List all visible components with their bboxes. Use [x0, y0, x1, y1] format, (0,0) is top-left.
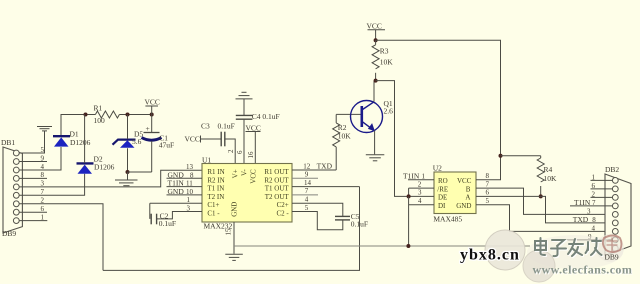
svg-text:12: 12 — [303, 162, 311, 170]
wire ground bus (U1 pin15 to U2 control net) — [234, 245, 530, 247]
net label T1IN (U2 pin1 RO) — [403, 171, 434, 180]
svg-text:VCC: VCC — [250, 169, 258, 184]
capacitor C5 0.1uF — [335, 212, 368, 228]
wire U2 pin5 GND to DB2 pin4 — [476, 205, 605, 232]
svg-text:11: 11 — [186, 180, 193, 188]
svg-text:14: 14 — [304, 179, 312, 187]
op-amp U2 MAX485 body — [433, 164, 476, 224]
svg-text:DB9: DB9 — [605, 253, 619, 262]
svg-text:3: 3 — [187, 205, 191, 213]
svg-text:2.6: 2.6 — [384, 107, 394, 116]
watermark CJK char 1 (电) — [535, 238, 547, 256]
svg-text:VCC: VCC — [457, 177, 472, 185]
junction dot VCC-C1 — [150, 113, 154, 117]
svg-text:10K: 10K — [544, 174, 558, 183]
wire VCC top rail to right — [376, 40, 501, 156]
svg-text:100: 100 — [94, 116, 106, 125]
wire D5 top to R1 junction — [127, 115, 129, 140]
svg-text:7: 7 — [592, 199, 596, 207]
wire U2 pin4 DI — [409, 204, 434, 206]
svg-text:TXD: TXD — [317, 161, 333, 170]
svg-text:R1 IN: R1 IN — [207, 168, 224, 176]
svg-text:8: 8 — [486, 172, 490, 180]
svg-text:ybx8.cn: ybx8.cn — [460, 247, 520, 264]
svg-text:C2+: C2+ — [277, 201, 289, 209]
junction dot R4-A line — [539, 194, 543, 198]
wire C3 to U1 pin2 V+ — [226, 139, 236, 164]
wire C2 to U1 pin3 C1- — [157, 212, 202, 219]
zener diode D5 5.6V — [113, 129, 144, 148]
capacitor C4 0.1uF — [236, 112, 280, 121]
svg-text:DI: DI — [438, 202, 446, 210]
svg-text:C1 -: C1 - — [207, 210, 220, 218]
wire U1 pin7 stub — [292, 194, 318, 196]
svg-text:T2 IN: T2 IN — [207, 193, 224, 201]
svg-text:5.6: 5.6 — [132, 137, 142, 146]
watermark red seal glyph — [603, 236, 622, 253]
svg-text:4: 4 — [592, 224, 596, 232]
svg-text:T1 IN: T1 IN — [207, 185, 224, 193]
svg-text:T2 OUT: T2 OUT — [265, 193, 290, 201]
wire VCC to U1 pin16 — [254, 132, 256, 164]
svg-text:GND: GND — [168, 187, 185, 196]
svg-text:6: 6 — [592, 182, 596, 190]
watermark text www.elecfans.com — [533, 263, 634, 278]
svg-text:0.1uF: 0.1uF — [218, 122, 235, 131]
resistor R3 10K — [372, 40, 393, 80]
wire C4 to U1 pin6 V- — [243, 120, 245, 164]
svg-text:R1: R1 — [94, 104, 103, 113]
ground G4 (U1 pin15) — [225, 254, 243, 260]
wire ground to C4 — [243, 99, 245, 115]
junction dot on ground bus — [406, 244, 410, 248]
svg-text:RO: RO — [438, 177, 448, 185]
capacitor C2 0.1uF — [151, 212, 176, 228]
diode D2 — [77, 155, 115, 174]
transistor Q1 — [351, 99, 394, 133]
svg-text:4: 4 — [418, 197, 422, 205]
wire DB1 pin2 to bottom bus — [20, 204, 104, 271]
svg-text:0.1uF: 0.1uF — [159, 219, 176, 228]
svg-text:DB2: DB2 — [605, 165, 619, 174]
resistor R1 — [94, 104, 120, 126]
power VCC label (U1 pin16) — [246, 123, 261, 132]
diode D1 — [53, 130, 91, 147]
wire Q1 emitter down to ground — [374, 131, 376, 155]
svg-text:10: 10 — [186, 188, 194, 196]
svg-text:GND: GND — [230, 202, 238, 217]
wire DB1 pin9 stub — [20, 161, 48, 163]
svg-text:C2 -: C2 - — [276, 210, 289, 218]
svg-text:1: 1 — [422, 172, 426, 180]
wire U1 pin1 C1+ to C2 — [150, 203, 202, 219]
net label T1IN (U1 pin11) — [167, 179, 203, 188]
wire VCC node to R4 — [501, 155, 541, 157]
net label GND (U1 pin8) — [167, 170, 203, 179]
ground G2 (D5/C1) — [115, 180, 138, 186]
ground G1 (DB1 pin5) — [37, 127, 52, 131]
svg-text:DB1: DB1 — [1, 138, 15, 147]
wire DB2 pin2 stub — [591, 196, 613, 198]
resistor R2 10K — [333, 114, 352, 170]
svg-text:C3: C3 — [201, 122, 210, 131]
watermark CJK char 3 (发) — [568, 239, 584, 257]
svg-text:6: 6 — [486, 189, 490, 197]
svg-text:13: 13 — [186, 163, 194, 171]
svg-text:TXD: TXD — [573, 215, 589, 224]
svg-text:7: 7 — [486, 180, 490, 188]
svg-text:DE: DE — [438, 194, 447, 202]
junction dot RE-DE tie — [407, 194, 411, 198]
svg-text:VCC: VCC — [185, 134, 200, 143]
wire DB1 pin4 to D1 — [20, 147, 62, 170]
svg-text:1: 1 — [187, 196, 191, 204]
svg-text:V+: V+ — [232, 169, 240, 178]
watermark CJK char 2 (子) — [551, 240, 567, 257]
wire U1 pin9 stub — [292, 177, 318, 179]
junction dot D5-ground — [126, 170, 130, 174]
svg-text:/RE: /RE — [437, 185, 448, 193]
wire DB2 pin6 stub — [591, 188, 613, 190]
svg-text:8: 8 — [592, 216, 596, 224]
wire R1 right to VCC node — [119, 114, 151, 116]
svg-text:8: 8 — [190, 171, 194, 179]
wire Q1 collector up to R3 — [373, 81, 375, 102]
wire DB1 pin8 stub — [20, 177, 48, 179]
DB1 pin number labels — [41, 146, 45, 222]
svg-text:10K: 10K — [338, 132, 352, 141]
wire ground node to C1 bottom — [128, 171, 152, 173]
connector DB2 (DB9 male) — [605, 165, 631, 255]
svg-text:T1IN: T1IN — [574, 198, 591, 207]
net label GND (U1 pin10) — [167, 187, 203, 196]
watermark CJK char 4 (烧) — [586, 238, 603, 256]
wire U2 pin6 A to DB2 pin8 — [476, 196, 605, 223]
wire D2 cathode up to R1 junction — [84, 115, 86, 164]
connector DB1 (DB9 female) — [1, 138, 22, 238]
svg-text:0.1uF: 0.1uF — [351, 219, 368, 228]
wire U1 pin15 GND stem — [233, 222, 235, 254]
ground G3 (above C4) — [236, 92, 253, 99]
svg-text:T1 OUT: T1 OUT — [265, 185, 290, 193]
wire U1 pin4 C2+ to C5 — [292, 203, 343, 216]
wire U1 pin12 R1OUT (TXD net) — [292, 169, 336, 171]
wire DB2 pin9 stub — [567, 239, 612, 241]
svg-text:VCC: VCC — [246, 123, 261, 132]
wire C1 stem bottom — [151, 141, 153, 172]
svg-text:5: 5 — [305, 204, 309, 212]
svg-text:DB9: DB9 — [2, 229, 16, 238]
svg-text:R2 IN: R2 IN — [207, 176, 224, 184]
svg-text:+: + — [146, 124, 150, 133]
svg-text:D1206: D1206 — [94, 163, 115, 172]
svg-text:9: 9 — [305, 171, 309, 179]
svg-text:D1206: D1206 — [70, 138, 91, 147]
wire VCC to C3 — [201, 138, 221, 140]
svg-text:C4 0.1uF: C4 0.1uF — [252, 112, 280, 121]
op-amp U1 MAX232 body — [202, 156, 292, 231]
junction dot VCC-R3 — [374, 38, 378, 42]
wire R2 top to Q1 base — [336, 113, 362, 115]
wire top rail left (D1 to R1) — [61, 115, 95, 138]
wire DB1 pin1 stub — [20, 220, 48, 222]
svg-text:3: 3 — [418, 189, 422, 197]
svg-text:VCC: VCC — [367, 21, 382, 30]
svg-text:T1IN: T1IN — [403, 171, 420, 180]
svg-text:R1 OUT: R1 OUT — [264, 168, 289, 176]
capacitor C1 47uF polarized — [142, 124, 175, 150]
power VCC label top (R3) — [367, 21, 386, 40]
svg-text:VCC: VCC — [145, 97, 160, 106]
wire U1 pin5 C2- to C5 — [292, 212, 343, 230]
wire D5 anode down to ground node — [127, 148, 129, 172]
svg-text:1: 1 — [592, 173, 596, 181]
svg-text:2: 2 — [227, 149, 235, 153]
junction dot R3-Q1 — [374, 79, 378, 83]
wire DB2 pin7 with net label T1IN — [570, 198, 612, 207]
wire R3 bottom to U2 RE/DE — [376, 81, 409, 197]
wire DB1 pin5 to ground — [20, 131, 45, 153]
svg-text:C1+: C1+ — [207, 201, 219, 209]
svg-text:16: 16 — [247, 151, 255, 159]
svg-text:GND: GND — [456, 202, 471, 210]
svg-text:V-: V- — [240, 169, 248, 176]
svg-text:U2: U2 — [433, 164, 442, 173]
svg-text:www.elecfans.com: www.elecfans.com — [533, 263, 633, 277]
wire RE/DE/DI down to ground bus — [408, 196, 410, 246]
svg-text:R3: R3 — [380, 47, 389, 56]
svg-text:B: B — [466, 185, 471, 193]
wire U2 pin8 VCC — [476, 156, 501, 180]
wire DB1 pin3 to U1 pin13 — [20, 170, 203, 187]
svg-text:2: 2 — [418, 180, 422, 188]
wire bottom bus (DB1 pin2 to U1 pin14 net) — [103, 187, 360, 271]
wire C1 stem top — [151, 115, 153, 133]
svg-text:6: 6 — [236, 150, 244, 154]
svg-text:47uF: 47uF — [159, 141, 174, 150]
wire DB1 pin6 stub — [20, 211, 48, 213]
svg-text:MAX485: MAX485 — [433, 215, 462, 224]
junction dot R1-D5 — [126, 113, 130, 117]
svg-text:5: 5 — [486, 197, 490, 205]
wire U2 pin7 B to DB2 pin3 — [476, 188, 605, 214]
svg-text:4: 4 — [305, 196, 309, 204]
junction dot R1-D2 — [84, 113, 88, 117]
wire DB1 pin7 to D2 — [20, 174, 85, 196]
junction dot VCC node — [499, 154, 503, 158]
svg-text:A: A — [465, 194, 470, 202]
power VCC label left (above C1) — [145, 97, 160, 114]
svg-text:15: 15 — [225, 228, 233, 236]
svg-text:R2 OUT: R2 OUT — [264, 176, 289, 184]
svg-text:7: 7 — [305, 187, 309, 195]
wire U1 pin14 T1OUT — [292, 186, 360, 188]
power VCC label (C3 left) — [185, 134, 201, 143]
ground G5 (Q1 emitter) — [366, 155, 385, 161]
capacitor C3 0.1uF — [201, 122, 235, 147]
wire DB2 pin1 stub — [591, 179, 613, 181]
svg-text:10K: 10K — [380, 58, 394, 67]
wire U2 pin3 DE — [409, 195, 434, 197]
resistor R4 10K — [537, 156, 557, 197]
net label TXD (DB2 pin8) — [573, 215, 596, 224]
watermark backdrop blobs — [485, 230, 624, 282]
svg-text:R4: R4 — [544, 165, 553, 174]
wire ground node stem — [127, 172, 129, 180]
svg-text:2: 2 — [592, 190, 596, 198]
wire U2 pin2 /RE — [409, 188, 434, 196]
